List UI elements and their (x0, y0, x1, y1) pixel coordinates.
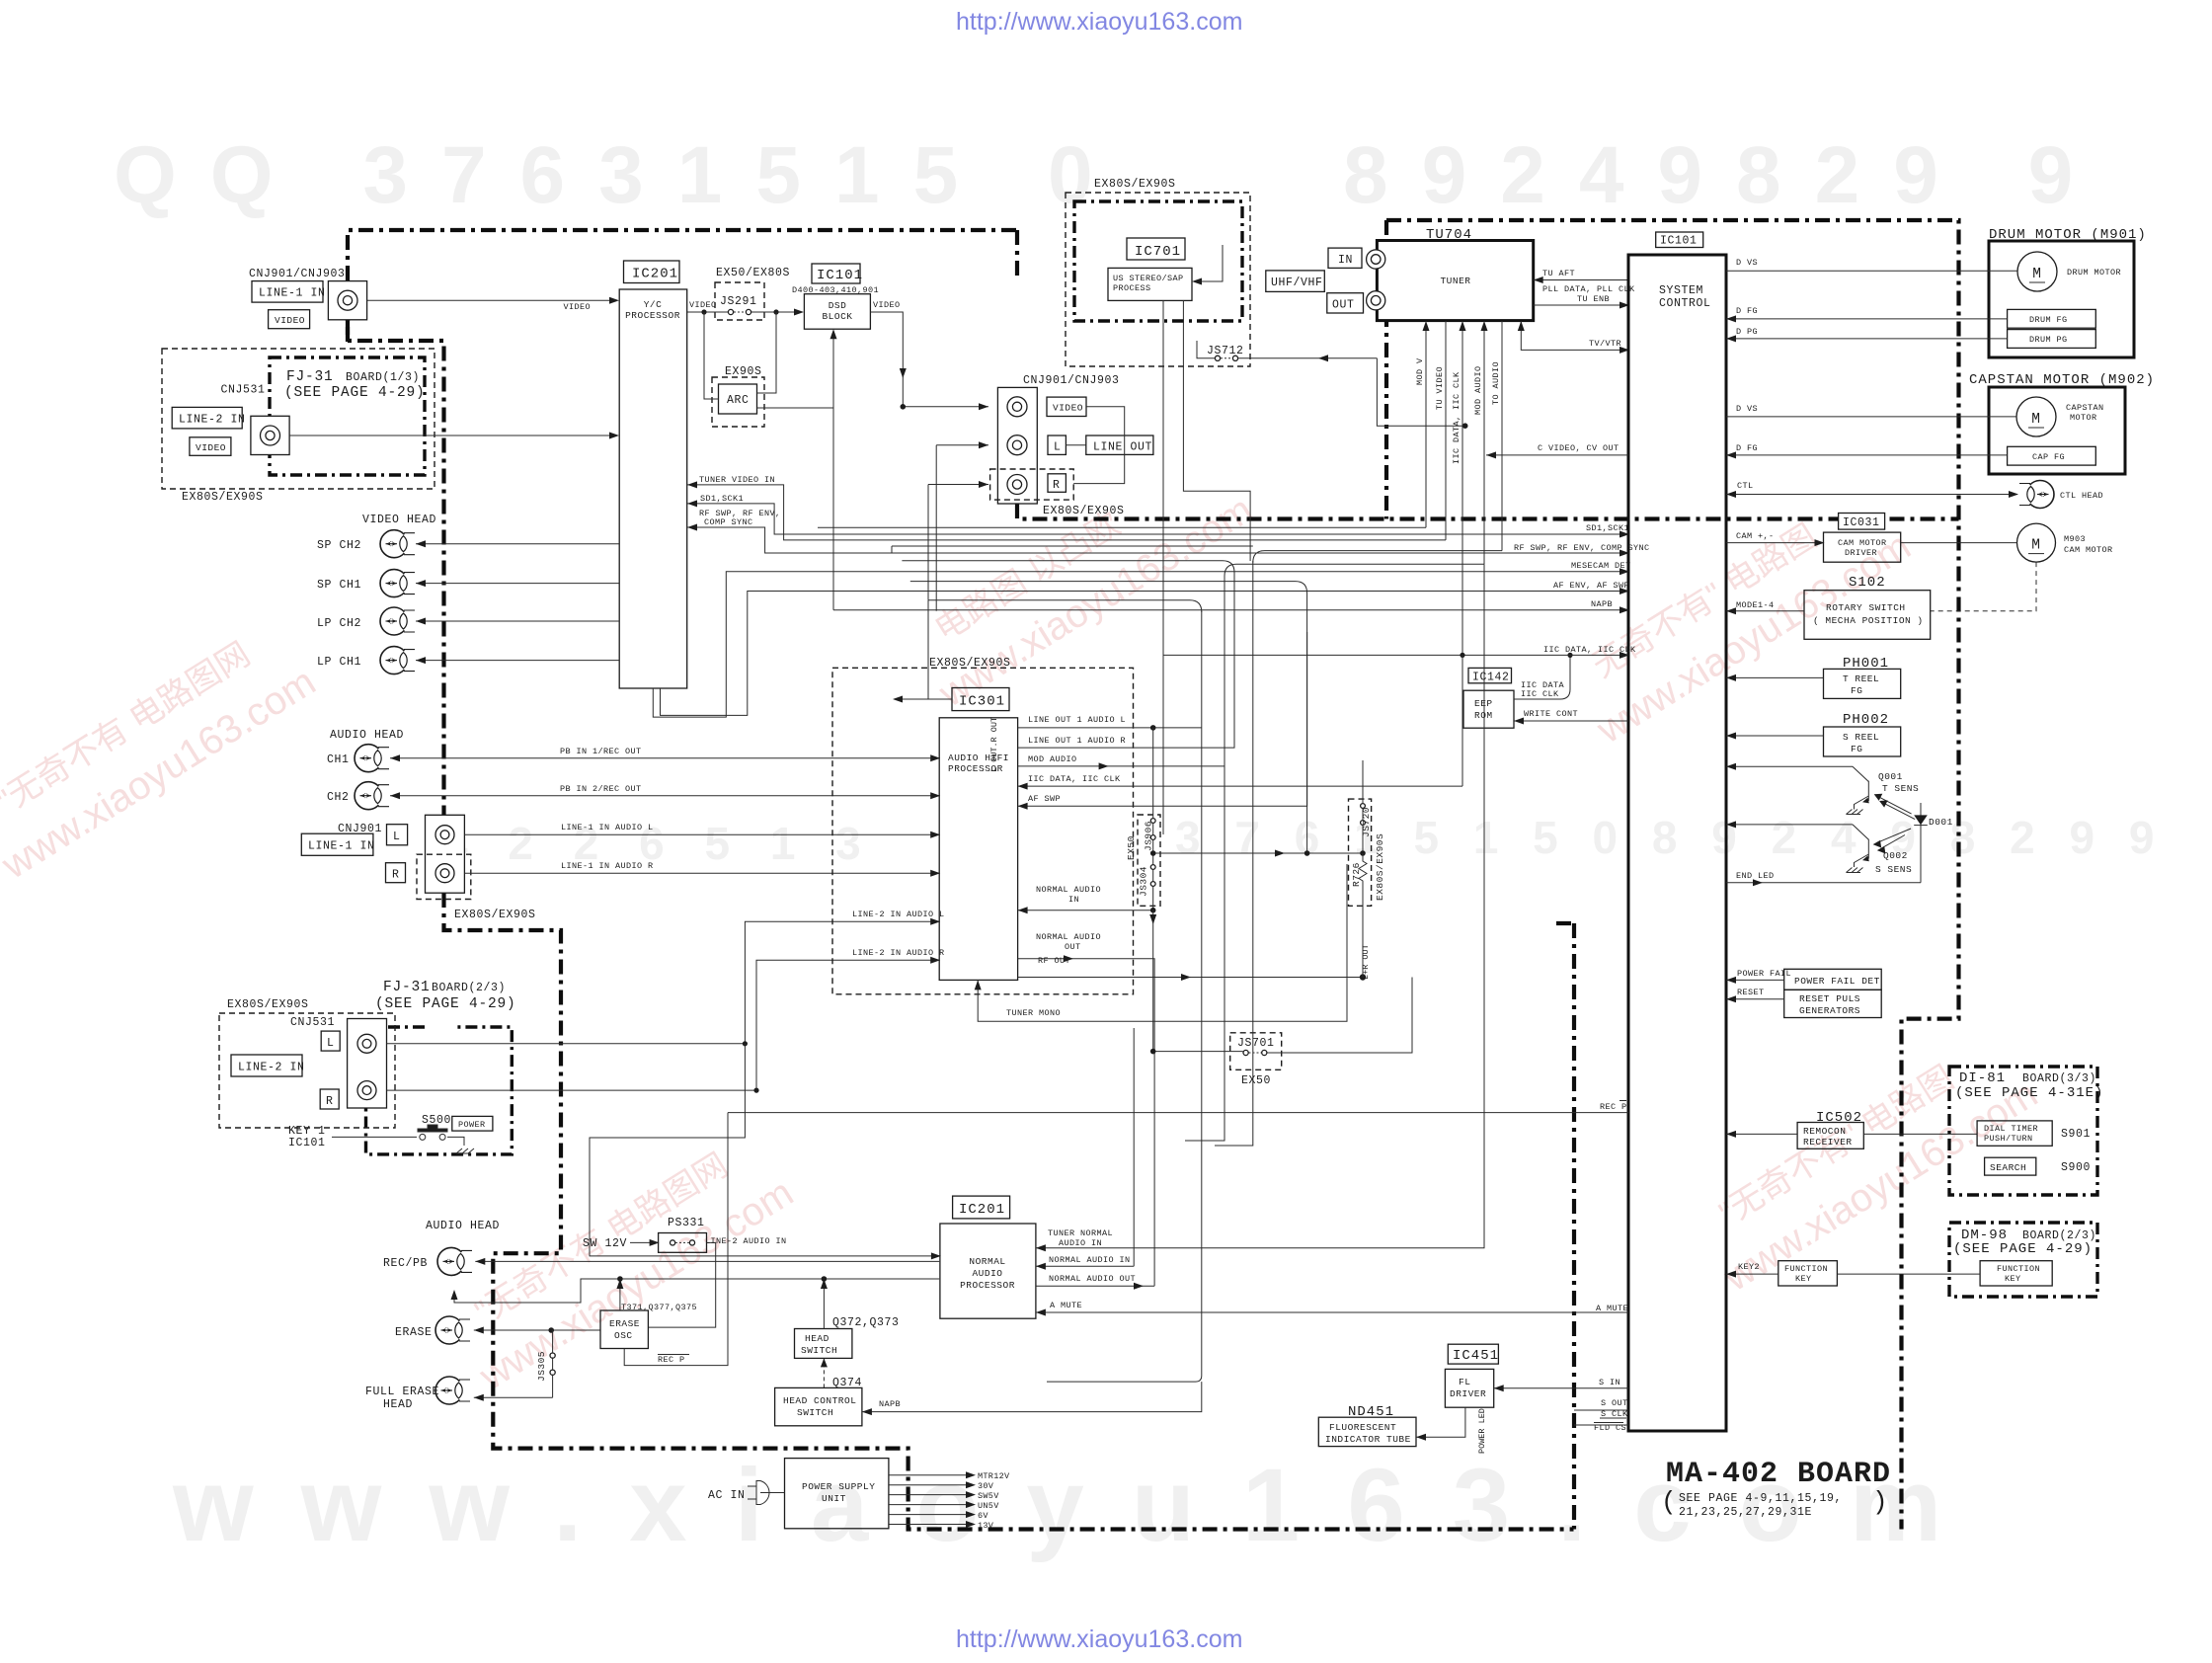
JS712 contacts (1215, 356, 1220, 360)
svg-text:UN5V: UN5V (978, 1501, 999, 1511)
svg-text:EEP: EEP (1474, 698, 1493, 709)
svg-text:HEAD: HEAD (805, 1333, 829, 1344)
svg-text:LINE-2 IN AUDIO L: LINE-2 IN AUDIO L (852, 910, 945, 919)
wire into IC301 label area (928, 600, 952, 699)
wire video into line-out connector (903, 406, 988, 408)
svg-text:Q001: Q001 (1878, 771, 1903, 782)
R box (531) (320, 1089, 339, 1109)
svg-text:R: R (392, 869, 400, 882)
DRUM FG box (2008, 309, 2096, 328)
svg-text:AUDIO HIFI: AUDIO HIFI (948, 752, 1009, 763)
svg-text:L+R OUT: L+R OUT (1361, 944, 1371, 980)
svg-text:RF OUT: RF OUT (1038, 956, 1070, 966)
svg-text:PROCESS: PROCESS (1113, 283, 1151, 293)
L+R OUT rotated label (1361, 944, 1371, 980)
svg-text:PB IN 2/REC OUT: PB IN 2/REC OUT (560, 784, 642, 794)
wire AF ENV, AF SWP with Y/C bottom step (661, 592, 1629, 716)
svg-text:EX80S/EX90S: EX80S/EX90S (182, 491, 264, 504)
wire cam driver to M903 (1901, 542, 2017, 544)
svg-text:S102: S102 (1849, 575, 1886, 591)
svg-text:(SEE PAGE 4-29): (SEE PAGE 4-29) (1953, 1241, 2093, 1257)
svg-text:(SEE PAGE 4-31E): (SEE PAGE 4-31E) (1955, 1085, 2103, 1101)
wire FL driver to tube (1416, 1407, 1465, 1437)
svg-text:HEAD CONTROL: HEAD CONTROL (783, 1395, 856, 1406)
FJ-31 board(1/3) outer dashed box (162, 349, 434, 489)
pink watermark center-top (903, 441, 1261, 716)
svg-text:DRIVER: DRIVER (1450, 1388, 1486, 1399)
L box (531) (321, 1031, 340, 1051)
TUNER box (1377, 241, 1533, 321)
wire normal audio in down (1152, 911, 1154, 923)
EX50 JS906/JS304 dashed box (1138, 815, 1160, 906)
D001 diode (1920, 803, 1922, 883)
HEAD SWITCH box (795, 1329, 852, 1359)
svg-text:LP CH2: LP CH2 (317, 617, 361, 630)
Y/C PROCESSOR block (619, 289, 687, 688)
wire PB IN 2/REC OUT (390, 795, 939, 797)
pink watermark center-bottom (442, 1125, 801, 1399)
svg-text:AUDIO HEAD: AUDIO HEAD (426, 1220, 500, 1232)
svg-text:SW 12V: SW 12V (583, 1237, 627, 1250)
wire: line-1 video to Y/C (367, 299, 610, 301)
svg-text:LINE OUT: LINE OUT (1093, 441, 1152, 454)
svg-text:FG: FG (1851, 685, 1862, 696)
tuner bottom pin MOD AUDIO (1483, 321, 1485, 564)
wire EEPROM IIC to bus (1514, 655, 1570, 699)
JS701 dashed box (1230, 1033, 1282, 1070)
IC101 label box (812, 264, 860, 283)
board outline: MA-402 inner vertical (1556, 923, 1574, 1530)
bus filler H (910, 582, 1307, 632)
IC701 inner dash-dot box (1074, 201, 1242, 321)
svg-text:NORMAL AUDIO: NORMAL AUDIO (1036, 932, 1101, 942)
DM-9B dash-dot box (1949, 1223, 2097, 1297)
svg-text:SYSTEM: SYSTEM (1659, 284, 1703, 297)
svg-text:LP CH1: LP CH1 (317, 656, 361, 669)
svg-text:ROTARY SWITCH: ROTARY SWITCH (1826, 602, 1906, 613)
svg-text:IIC DATA, IIC CLK: IIC DATA, IIC CLK (1452, 371, 1461, 464)
PSU output labels (978, 1471, 1010, 1531)
JS291 contacts (728, 309, 733, 314)
svg-text:KEY2: KEY2 (1738, 1262, 1760, 1272)
svg-text:A MUTE: A MUTE (1596, 1304, 1628, 1313)
wire FULL ERASE (474, 1396, 553, 1398)
FUNCTION KEY box (left) (1778, 1261, 1838, 1286)
svg-text:LINE-2 AUDIO IN: LINE-2 AUDIO IN (705, 1236, 787, 1246)
svg-text:TUNER: TUNER (1440, 276, 1470, 286)
wire: line-2 video to Y/C (289, 435, 610, 436)
svg-text:JS305: JS305 (536, 1351, 547, 1382)
JS720 label rotated (1361, 807, 1372, 837)
svg-text:SP CH1: SP CH1 (317, 579, 361, 592)
svg-text:SWITCH: SWITCH (797, 1407, 833, 1418)
board outline left (EX80S/EX90S boundary, top-left corner run) (348, 230, 1017, 342)
IC301 label box (952, 688, 1009, 711)
board outline: right side top run and right vertical (1386, 220, 1959, 1530)
svg-text:ERASE: ERASE (395, 1326, 433, 1339)
svg-text:EX80S/EX90S: EX80S/EX90S (454, 909, 536, 921)
POWER box (452, 1116, 493, 1131)
R box (line out) (1048, 474, 1066, 493)
wire head switch top to junction (823, 1279, 825, 1329)
wire Q002 collector (1726, 824, 1853, 826)
board outline below CNJ901 video connector (348, 320, 444, 815)
svg-text:PB IN 1/REC OUT: PB IN 1/REC OUT (560, 747, 642, 756)
svg-text:VIDEO: VIDEO (1053, 403, 1083, 414)
CTL head symbol (2019, 481, 2054, 509)
svg-text:T SENS: T SENS (1882, 783, 1919, 794)
transistor Q001 (1853, 766, 1868, 809)
svg-text:OUT: OUT (1065, 942, 1081, 952)
tuner bottom pin IIC (1461, 321, 1463, 655)
svg-text:(SEE PAGE 4-29): (SEE PAGE 4-29) (375, 996, 516, 1012)
svg-text:REMOCON: REMOCON (1803, 1126, 1846, 1137)
svg-text:NORMAL AUDIO: NORMAL AUDIO (1036, 885, 1101, 895)
wire remocon to syscon (1726, 1133, 1797, 1135)
LINE-1 IN box (252, 281, 323, 303)
svg-text:DRUM MOTOR: DRUM MOTOR (2067, 268, 2121, 277)
svg-text:3 7 6 1 5 1 5 0 8 9 2 4 9 8 2: 3 7 6 1 5 1 5 0 8 9 2 4 9 8 2 9 9 (1175, 812, 2165, 863)
svg-text:D VS: D VS (1736, 404, 1758, 414)
PS331 contacts (671, 1240, 675, 1245)
svg-text:LINE OUT 1 AUDIO L: LINE OUT 1 AUDIO L (1028, 715, 1126, 725)
bus filler A (818, 526, 1426, 528)
svg-text:4 2 2 6 5 1 3: 4 2 2 6 5 1 3 (442, 818, 875, 869)
ARC box (719, 384, 757, 414)
svg-text:SD1,SCK1: SD1,SCK1 (1586, 523, 1629, 533)
svg-text:NORMAL AUDIO OUT: NORMAL AUDIO OUT (1049, 1274, 1136, 1284)
svg-text:POWER LED: POWER LED (1477, 1408, 1487, 1454)
svg-text:6V: 6V (978, 1511, 988, 1521)
svg-text:M: M (2031, 538, 2041, 554)
tuner bottom pin TU VIDEO (1445, 321, 1447, 540)
svg-text:TUNER VIDEO IN: TUNER VIDEO IN (699, 475, 775, 485)
wire LP CH2 (416, 620, 619, 622)
svg-text:LINE-1 IN AUDIO L: LINE-1 IN AUDIO L (561, 823, 654, 832)
JS305 contacts (550, 1353, 555, 1358)
svg-text:MODE1-4: MODE1-4 (1736, 600, 1775, 610)
drum motor box (1989, 241, 2134, 357)
wire into US SAP right edge (1201, 245, 1223, 281)
svg-text:S IN: S IN (1599, 1378, 1620, 1387)
svg-text:T REEL: T REEL (1843, 673, 1879, 684)
IC701 outer dashed box (1066, 193, 1250, 366)
svg-text:S901: S901 (2061, 1128, 2091, 1141)
svg-text:PROCESSOR: PROCESSOR (960, 1280, 1015, 1291)
svg-text:MESECAM DET: MESECAM DET (1571, 561, 1631, 571)
svg-text:IIC DATA, IIC CLK: IIC DATA, IIC CLK (1543, 645, 1636, 655)
S500 switch (332, 1125, 464, 1146)
US STEREO/SAP PROCESS box (1108, 268, 1192, 300)
svg-text:BOARD(1/3): BOARD(1/3) (346, 371, 420, 384)
svg-text:TUNER MONO: TUNER MONO (1006, 1008, 1061, 1018)
wire IIC bus (1163, 654, 1628, 656)
svg-text:GENERATORS: GENERATORS (1799, 1005, 1860, 1016)
capstan M circle (2016, 397, 2056, 436)
svg-text:DI-81: DI-81 (1959, 1070, 2006, 1086)
wire remocon to dial timer (1863, 1133, 1977, 1135)
svg-text:END LED: END LED (1736, 871, 1775, 881)
IC031 label box (1839, 514, 1885, 530)
wire LINE-2 IN AUDIO R long (387, 960, 940, 1090)
RESET PULS GENERATORS box (1784, 990, 1882, 1017)
EX80S/EX90S dashed box around IC301 (832, 668, 1134, 994)
EX50 column vertical wire (1152, 728, 1154, 911)
JS291 dashed box (715, 282, 764, 320)
board outline: drop to line-out connector (1015, 230, 1019, 281)
svg-text:JS291: JS291 (720, 295, 757, 308)
wire S REEL (1726, 735, 1824, 737)
wire DSD video out down to line-out video (870, 312, 903, 407)
VIDEO box (line-1) (269, 310, 310, 329)
svg-text:D FG: D FG (1736, 306, 1758, 316)
dashed wire Q374 (823, 1358, 825, 1387)
OUT box (1327, 293, 1364, 313)
svg-text:FJ-31: FJ-31 (286, 369, 334, 385)
UHF/VHF box (1266, 271, 1325, 292)
svg-text:CAP FG: CAP FG (2032, 452, 2065, 462)
dashed box around R (line out) (990, 469, 1074, 500)
SYSTEM CONTROL block (1628, 255, 1726, 1431)
VIDEO box (line out) (1047, 397, 1086, 416)
svg-text:S REEL: S REEL (1843, 732, 1879, 743)
svg-text:JS906: JS906 (1144, 821, 1154, 851)
svg-text:CNJ531: CNJ531 (290, 1016, 335, 1029)
svg-text:RF SWP, RF ENV, COMP SYNC: RF SWP, RF ENV, COMP SYNC (1514, 543, 1650, 553)
svg-text:CTL: CTL (1737, 481, 1754, 491)
svg-text:EX80S/EX90S: EX80S/EX90S (227, 998, 309, 1011)
svg-text:FL: FL (1459, 1377, 1470, 1387)
svg-text:L OUT.R OUT: L OUT.R OUT (989, 717, 999, 772)
EX80S/EX90S dashed box around CNJ531 (219, 1013, 395, 1128)
svg-text:Y/C: Y/C (644, 299, 663, 310)
audio head CH1 (355, 745, 389, 772)
svg-text:JS701: JS701 (1237, 1037, 1275, 1050)
svg-text:EX80S/EX90S: EX80S/EX90S (1375, 833, 1385, 901)
POWER SUPPLY UNIT box (785, 1459, 889, 1529)
POWER FAIL DET box (1784, 969, 1882, 990)
vertical bus x1216.8 down to NAPB corner (1047, 611, 1202, 1382)
svg-text:AF ENV, AF SWP: AF ENV, AF SWP (1553, 581, 1629, 591)
FJ-31 board(2/3) dash-dot box (366, 1027, 513, 1154)
svg-text:UNIT: UNIT (822, 1493, 846, 1504)
svg-text:ERASE: ERASE (609, 1318, 640, 1329)
ground Q001 (1847, 810, 1863, 815)
svg-text:R726: R726 (1351, 862, 1362, 887)
wire TO AUDIO pin run (1253, 551, 1502, 563)
POWER LED rotated label (1477, 1408, 1487, 1454)
svg-text:TO AUDIO: TO AUDIO (1491, 361, 1501, 405)
wire MESECAM DET with Y/C bottom step (653, 572, 1628, 717)
svg-text:(: ( (1661, 1487, 1677, 1517)
svg-text:EX80S/EX90S: EX80S/EX90S (1094, 178, 1176, 191)
vertical bus x1323.6 (1306, 632, 1308, 853)
svg-text:TU VIDEO: TU VIDEO (1435, 366, 1445, 410)
svg-text:OUT: OUT (1332, 298, 1355, 311)
LINE OUT box (1086, 436, 1153, 454)
svg-text:SEE PAGE 4-9,11,15,19,: SEE PAGE 4-9,11,15,19, (1679, 1492, 1842, 1505)
svg-text:EX90S: EX90S (725, 365, 762, 378)
svg-text:IN: IN (1338, 254, 1353, 267)
wire normal audio in (NAP) (1036, 1265, 1134, 1267)
photo arrows to Q001 (1877, 796, 1916, 820)
DIAL TIMER PUSH/TURN box (1977, 1121, 2052, 1146)
wire JS712 to TO AUDIO column (1238, 358, 1465, 426)
bus filler D (892, 546, 1253, 553)
svg-text:CTL HEAD: CTL HEAD (2060, 491, 2103, 501)
svg-text:D FG: D FG (1736, 443, 1758, 453)
R726 label rotated (1351, 862, 1362, 887)
svg-text:CAM MOTOR: CAM MOTOR (2064, 545, 2113, 555)
svg-text:ROM: ROM (1474, 710, 1493, 721)
IC451 label box (1448, 1344, 1498, 1364)
wire REC/PB bottom loop (454, 1279, 939, 1303)
svg-text:http://www.xiaoyu163.com: http://www.xiaoyu163.com (956, 8, 1242, 36)
svg-text:SW5V: SW5V (978, 1491, 999, 1501)
pink watermark right (1560, 478, 1919, 752)
svg-text:COMP SYNC: COMP SYNC (704, 517, 753, 527)
svg-text:IC101: IC101 (288, 1137, 326, 1149)
svg-text:VIDEO: VIDEO (689, 300, 717, 310)
wire MOD AUDIO pin run (1224, 564, 1484, 656)
svg-text:http://www.xiaoyu163.com: http://www.xiaoyu163.com (956, 1625, 1242, 1653)
svg-text:JS712: JS712 (1207, 345, 1244, 357)
svg-text:RESET PULS: RESET PULS (1799, 993, 1860, 1004)
CNJ901 audio connector (426, 815, 465, 893)
svg-text:EX50: EX50 (1126, 835, 1137, 860)
svg-text:FG: FG (1851, 744, 1862, 754)
svg-text:PLL DATA, PLL CLK: PLL DATA, PLL CLK (1542, 284, 1635, 294)
svg-text:LINE-1 IN: LINE-1 IN (259, 287, 326, 300)
svg-text:LINE-1 IN AUDIO R: LINE-1 IN AUDIO R (561, 861, 654, 871)
svg-text:POWER FAIL DET: POWER FAIL DET (1794, 976, 1880, 987)
label callout wires line-out (1066, 407, 1124, 484)
svg-text:NAPB: NAPB (879, 1399, 901, 1409)
svg-text:SD1,SCK1: SD1,SCK1 (700, 494, 744, 504)
wire erase osc top to junction (619, 1279, 621, 1310)
svg-text:D001: D001 (1929, 817, 1953, 828)
wire LINE-1 IN AUDIO L (464, 833, 939, 835)
svg-text:JS304: JS304 (1139, 866, 1149, 897)
svg-text:CONTROL: CONTROL (1659, 297, 1711, 310)
svg-text:US STEREO/SAP: US STEREO/SAP (1113, 274, 1184, 283)
wire LINE-2 AUDIO IN to NAP (590, 1044, 940, 1256)
wire down from JS701 junction to NAP area (1133, 1028, 1135, 1266)
wire to JS701 (1153, 923, 1243, 1052)
svg-text:R: R (326, 1095, 334, 1108)
svg-text:REC P: REC P (658, 1355, 685, 1365)
DRUM PG box (2008, 330, 2096, 349)
wire LINE-1 IN AUDIO R (464, 872, 939, 874)
video head LP CH2 (380, 607, 415, 635)
FLUORESCENT INDICATOR TUBE box (1318, 1417, 1416, 1446)
board outline: below line-out connector, bottom run right to TU704 (1017, 504, 1959, 519)
wire PB IN 1/REC OUT (390, 757, 939, 759)
svg-text:21,23,25,27,29,31E: 21,23,25,27,29,31E (1679, 1506, 1812, 1519)
photo arrows to Q002 (1877, 829, 1912, 849)
svg-text:L: L (393, 831, 401, 843)
svg-text:IC701: IC701 (1135, 244, 1181, 260)
IIC pin down to IC301 (1461, 655, 1463, 786)
wire T REEL (1726, 676, 1824, 678)
svg-text:DIAL TIMER: DIAL TIMER (1984, 1124, 2038, 1134)
DI-81 dash-dot box (1949, 1067, 2097, 1195)
svg-text:LINE-2 IN: LINE-2 IN (179, 413, 246, 426)
tuner OUT jack (1367, 291, 1385, 310)
svg-text:INDICATOR TUBE: INDICATOR TUBE (1325, 1434, 1411, 1445)
svg-text:VIDEO: VIDEO (873, 300, 901, 310)
svg-text:POWER: POWER (458, 1120, 486, 1130)
FUNCTION KEY box (right) (1980, 1261, 2052, 1286)
svg-text:D VS: D VS (1736, 258, 1758, 268)
JS305 vertical wire (551, 1330, 552, 1397)
EEP ROM box (1463, 690, 1514, 728)
wire A MUTE (1036, 1311, 1628, 1313)
wire TUNER VIDEO IN (687, 485, 1446, 540)
NORMAL AUDIO PROCESSOR block (940, 1224, 1036, 1318)
JS720 contacts (1361, 804, 1366, 809)
svg-text:BOARD(2/3): BOARD(2/3) (432, 982, 506, 994)
svg-text:EX50/EX80S: EX50/EX80S (716, 267, 790, 279)
REMOCON RECEIVER box (1797, 1123, 1863, 1149)
video head SP CH1 (380, 570, 415, 597)
svg-text:ARC: ARC (727, 394, 750, 407)
wire power fail (1726, 979, 1784, 981)
svg-text:CNJ531: CNJ531 (221, 384, 266, 397)
svg-text:BOARD(3/3): BOARD(3/3) (2022, 1072, 2096, 1085)
wire SP CH1 (416, 583, 619, 585)
svg-text:IC451: IC451 (1453, 1348, 1499, 1364)
wire into DSD bottom from below (832, 338, 834, 610)
PS331 box (659, 1233, 707, 1253)
wire REC P from osc bottom (624, 1113, 728, 1366)
bus filler F (902, 561, 1234, 652)
svg-text:EX50: EX50 (1241, 1074, 1271, 1087)
svg-text:IC142: IC142 (1472, 671, 1510, 683)
EX90S dashed box (712, 377, 764, 427)
pin rotated labels (1415, 357, 1501, 464)
svg-text:CAM +,-: CAM +,- (1736, 531, 1775, 541)
svg-text:DRUM FG: DRUM FG (2029, 315, 2068, 325)
wire L OUT branch right (1153, 852, 1363, 854)
svg-text:S SENS: S SENS (1875, 864, 1912, 875)
svg-text:DRUM PG: DRUM PG (2029, 335, 2068, 345)
LINE-1 IN box (audio) (301, 833, 373, 855)
svg-text:A MUTE: A MUTE (1050, 1301, 1082, 1310)
pink watermark right-bottom (1687, 1026, 2045, 1301)
transistor Q002 (1853, 825, 1868, 867)
L box (387, 825, 408, 845)
FL DRIVER box (1445, 1369, 1493, 1407)
wire LINE-2 IN AUDIO L long (387, 921, 940, 1044)
svg-text:FUNCTION: FUNCTION (1784, 1264, 1828, 1274)
tuner bottom pin MOD V (1425, 321, 1427, 527)
pink watermark left (0, 613, 323, 888)
svg-text:TUNER NORMAL: TUNER NORMAL (1048, 1228, 1113, 1238)
CAM MOTOR DRIVER box (1824, 532, 1901, 562)
svg-text:L: L (327, 1037, 335, 1050)
IC201 (NAP) label box (953, 1196, 1010, 1219)
JS712 stub left (1197, 341, 1215, 358)
svg-text:S OUT: S OUT (1601, 1398, 1628, 1408)
FJ-31 board(1/3) dash-dot box (270, 357, 425, 475)
svg-text:PROCESSOR: PROCESSOR (625, 310, 680, 321)
wire COMP SYNC (687, 527, 1628, 553)
capstan motor box (1989, 387, 2125, 474)
svg-text:CNJ901/CNJ903: CNJ901/CNJ903 (249, 268, 346, 280)
svg-text:SEARCH: SEARCH (1990, 1162, 2026, 1173)
AC plug symbol (748, 1481, 785, 1505)
